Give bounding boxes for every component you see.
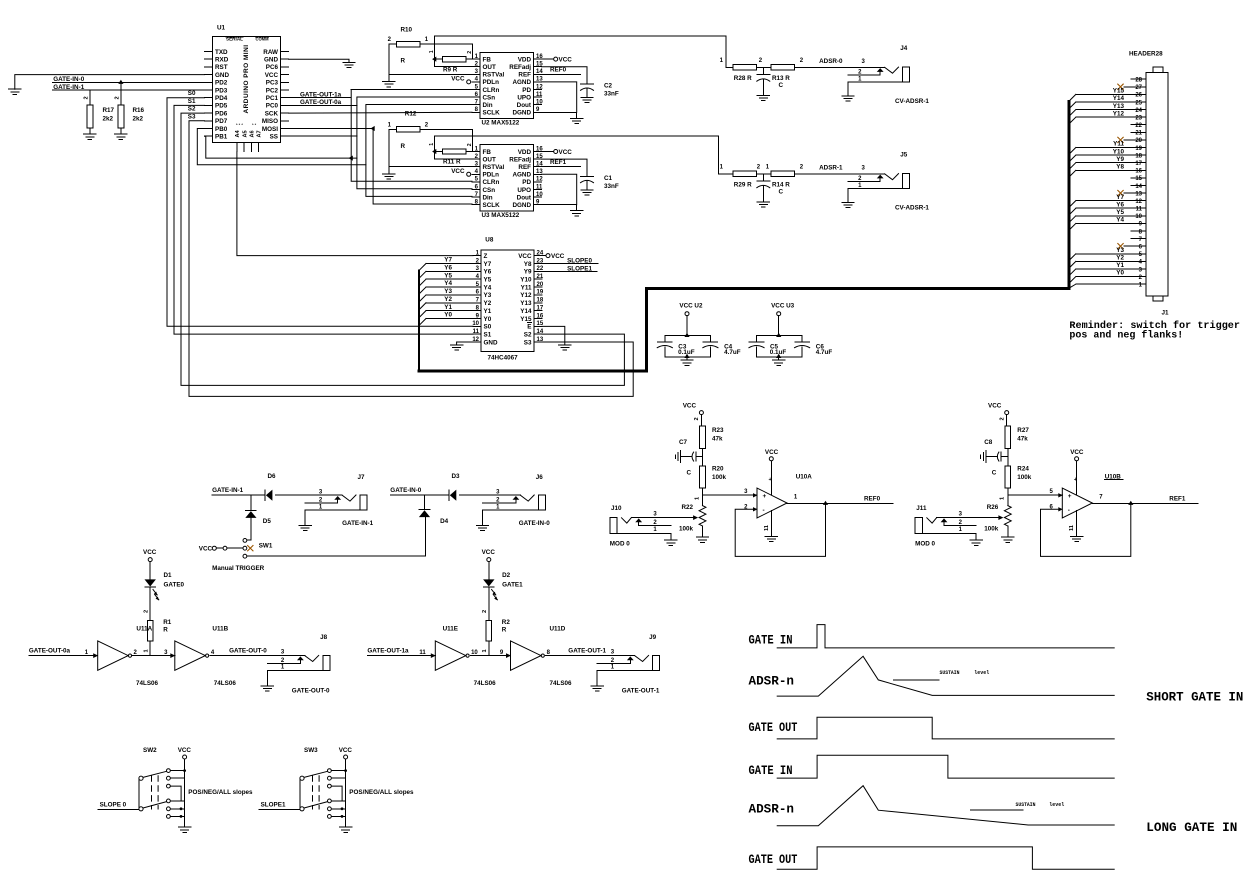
svg-text:R9 R: R9 R: [443, 66, 458, 73]
svg-text:Din: Din: [483, 194, 493, 201]
svg-text:ADSR-1: ADSR-1: [819, 165, 843, 172]
svg-text:100k: 100k: [984, 526, 999, 533]
svg-text:-: -: [1068, 507, 1070, 514]
svg-text:D4: D4: [440, 518, 449, 525]
svg-text:Manual TRIGGER: Manual TRIGGER: [212, 565, 265, 572]
svg-text:C1: C1: [604, 175, 613, 182]
svg-text:Y10: Y10: [520, 276, 532, 283]
svg-text:PD6: PD6: [215, 110, 228, 117]
svg-text:Y4: Y4: [484, 284, 492, 291]
svg-text:Y6: Y6: [1116, 201, 1124, 208]
svg-text:Y13: Y13: [520, 300, 532, 307]
svg-text:Y7: Y7: [444, 257, 452, 264]
svg-text:11: 11: [536, 92, 543, 98]
svg-text:VCC: VCC: [559, 56, 573, 63]
svg-text:R1: R1: [163, 619, 172, 626]
svg-text:R: R: [401, 143, 406, 150]
svg-text:GATE OUT: GATE OUT: [749, 852, 798, 867]
svg-text:DGND: DGND: [512, 110, 531, 117]
svg-text:J4: J4: [900, 45, 908, 52]
svg-text:SLOPE0: SLOPE0: [567, 258, 592, 265]
svg-text:GND: GND: [484, 339, 498, 346]
svg-text:PC0: PC0: [266, 103, 279, 110]
svg-text:11: 11: [419, 650, 426, 656]
svg-text:SLOPE1: SLOPE1: [261, 802, 286, 809]
svg-text:U2 MAX5122: U2 MAX5122: [482, 119, 520, 126]
svg-text:Dout: Dout: [517, 102, 532, 109]
svg-text:pos and neg flanks!: pos and neg flanks!: [1069, 330, 1183, 342]
svg-text:FB: FB: [483, 149, 492, 156]
svg-text:C8: C8: [984, 439, 993, 446]
svg-text:FB: FB: [483, 56, 492, 63]
svg-text:S0: S0: [484, 324, 492, 331]
svg-text:12: 12: [1135, 199, 1142, 205]
svg-text:PD2: PD2: [215, 80, 228, 87]
svg-text:Y9: Y9: [524, 269, 532, 276]
svg-text:PC1: PC1: [266, 95, 279, 102]
svg-text:VCC U3: VCC U3: [771, 303, 795, 310]
svg-text:R26: R26: [987, 504, 999, 511]
svg-text:Din: Din: [483, 102, 493, 109]
svg-text:ADSR-n: ADSR-n: [749, 802, 795, 817]
svg-text:S2: S2: [524, 332, 532, 339]
svg-text:4.7uF: 4.7uF: [816, 349, 833, 356]
svg-text:Y1: Y1: [484, 308, 492, 315]
svg-text:SW1: SW1: [259, 543, 273, 550]
svg-text:74LS06: 74LS06: [214, 680, 237, 687]
svg-text:Y3: Y3: [484, 292, 492, 299]
svg-text:MOD 0: MOD 0: [610, 541, 630, 548]
svg-text:SUSTAIN: SUSTAIN: [940, 670, 960, 676]
svg-text:16: 16: [1135, 169, 1142, 175]
svg-text:J5: J5: [900, 152, 908, 159]
svg-text:VCC U2: VCC U2: [679, 303, 703, 310]
svg-text:GATE-OUT-1a: GATE-OUT-1a: [300, 91, 342, 98]
svg-text:D3: D3: [452, 473, 461, 480]
svg-text:A5: A5: [242, 130, 248, 137]
svg-text:PC3: PC3: [266, 80, 279, 87]
svg-text:ARDUINO PRO MINI: ARDUINO PRO MINI: [243, 45, 250, 114]
svg-text:POS/NEG/ALL slopes: POS/NEG/ALL slopes: [188, 789, 253, 796]
svg-text:UPO: UPO: [517, 94, 531, 101]
svg-text:J9: J9: [649, 634, 657, 641]
svg-text:74HC4067: 74HC4067: [488, 355, 519, 362]
svg-text:PB0: PB0: [215, 126, 228, 133]
svg-text:S3: S3: [188, 113, 196, 120]
svg-text:R: R: [401, 58, 406, 65]
svg-text:RST: RST: [215, 64, 228, 71]
svg-text:18: 18: [537, 298, 544, 304]
svg-text:21: 21: [1135, 131, 1142, 137]
svg-text:0.1uF: 0.1uF: [770, 349, 787, 356]
svg-text:REF0: REF0: [864, 496, 881, 503]
svg-text:GATE-OUT-0: GATE-OUT-0: [292, 688, 330, 695]
svg-text:* *: * *: [252, 122, 257, 127]
svg-text:U11B: U11B: [212, 625, 228, 632]
svg-text:VDD: VDD: [518, 149, 532, 156]
svg-text:GATE0: GATE0: [164, 582, 185, 589]
svg-text:ADSR-n: ADSR-n: [749, 674, 795, 689]
svg-text:74LS06: 74LS06: [550, 680, 573, 687]
svg-text:24: 24: [1135, 108, 1142, 114]
svg-text:PD: PD: [522, 179, 531, 186]
svg-text:Y1: Y1: [444, 304, 452, 311]
svg-text:CLRn: CLRn: [483, 179, 500, 186]
svg-text:1: 1: [1000, 497, 1006, 500]
svg-text:ADSR-0: ADSR-0: [819, 58, 843, 65]
svg-text:SLOPE1: SLOPE1: [567, 266, 592, 273]
svg-text:VCC: VCC: [559, 149, 573, 156]
svg-text:Y0: Y0: [444, 312, 452, 319]
svg-text:VCC: VCC: [518, 253, 532, 260]
svg-text:11: 11: [473, 329, 480, 335]
svg-text:GND: GND: [215, 72, 229, 79]
svg-text:Z: Z: [484, 253, 488, 260]
svg-text:SCK: SCK: [265, 110, 279, 117]
svg-text:VCC: VCC: [339, 747, 353, 754]
svg-text:SS: SS: [270, 134, 278, 141]
svg-text:R20: R20: [712, 466, 724, 473]
svg-text:Y5: Y5: [1116, 209, 1124, 216]
svg-text:GATE-OUT-1: GATE-OUT-1: [568, 648, 606, 655]
svg-text:R22: R22: [681, 504, 693, 511]
svg-text:GATE OUT: GATE OUT: [749, 720, 798, 735]
svg-text:Y11: Y11: [521, 284, 532, 291]
svg-text:10: 10: [472, 321, 479, 327]
svg-text:GATE-IN-0: GATE-IN-0: [390, 487, 422, 494]
svg-text:Y9: Y9: [1116, 156, 1124, 163]
svg-text:VCC: VCC: [1070, 449, 1084, 456]
svg-text:2: 2: [143, 610, 149, 613]
svg-text:Y3: Y3: [444, 288, 452, 295]
svg-text:+: +: [1068, 493, 1072, 500]
svg-text:Y14: Y14: [1113, 95, 1125, 102]
svg-text:20: 20: [537, 282, 544, 288]
svg-text:Y3: Y3: [1116, 247, 1124, 254]
svg-text:level: level: [974, 670, 989, 676]
svg-text:GATE-OUT-0a: GATE-OUT-0a: [29, 648, 71, 655]
svg-text:C: C: [779, 82, 784, 89]
svg-text:J7: J7: [358, 474, 366, 481]
svg-text:J11: J11: [916, 505, 927, 512]
svg-text:S2: S2: [188, 106, 196, 113]
svg-text:C2: C2: [604, 83, 613, 90]
svg-text:33nF: 33nF: [604, 91, 619, 98]
svg-text:OUT: OUT: [483, 156, 496, 163]
svg-text:D2: D2: [502, 572, 511, 579]
svg-text:27: 27: [1135, 85, 1142, 91]
svg-text:* * *: * * *: [236, 122, 243, 127]
svg-text:47k: 47k: [712, 436, 723, 443]
svg-text:SW3: SW3: [304, 747, 318, 754]
svg-text:U1: U1: [217, 25, 226, 32]
svg-text:AGND: AGND: [512, 79, 531, 86]
svg-text:VDD: VDD: [518, 56, 532, 63]
svg-text:R17: R17: [103, 107, 115, 114]
svg-text:1: 1: [429, 143, 435, 146]
svg-text:REF: REF: [518, 164, 531, 171]
svg-text:1: 1: [429, 50, 435, 53]
svg-text:1: 1: [694, 497, 700, 500]
svg-text:VCC: VCC: [265, 72, 279, 79]
svg-text:R23: R23: [712, 427, 724, 434]
svg-text:1: 1: [143, 649, 149, 652]
svg-text:16: 16: [537, 313, 544, 319]
svg-text:C: C: [686, 470, 691, 477]
svg-text:2: 2: [999, 417, 1005, 420]
svg-text:VCC: VCC: [551, 253, 565, 260]
svg-text:17: 17: [1135, 161, 1142, 167]
svg-text:GATE-IN-0: GATE-IN-0: [519, 520, 551, 527]
svg-text:Y2: Y2: [1116, 255, 1124, 262]
svg-text:U8: U8: [485, 237, 494, 244]
svg-text:D6: D6: [268, 473, 277, 480]
svg-text:R: R: [163, 626, 168, 633]
svg-text:C: C: [992, 470, 997, 477]
svg-text:VCC: VCC: [143, 549, 157, 556]
svg-text:15: 15: [1135, 176, 1142, 182]
svg-text:2: 2: [83, 96, 89, 99]
svg-text:S0: S0: [188, 90, 196, 97]
svg-text:R10: R10: [401, 27, 413, 34]
svg-text:100k: 100k: [1017, 474, 1032, 481]
svg-text:U3 MAX5122: U3 MAX5122: [482, 212, 520, 219]
svg-text:S1: S1: [484, 332, 492, 339]
svg-text:-: -: [763, 507, 765, 514]
svg-text:VCC: VCC: [451, 76, 465, 83]
svg-text:PB1: PB1: [215, 134, 228, 141]
svg-text:J6: J6: [536, 474, 544, 481]
svg-text:SLOPE 0: SLOPE 0: [100, 802, 127, 809]
svg-text:REFadj: REFadj: [509, 156, 531, 163]
svg-text:R24: R24: [1017, 466, 1029, 473]
svg-text:A4: A4: [235, 129, 241, 137]
svg-text:GATE-IN-1: GATE-IN-1: [342, 520, 374, 527]
svg-text:Y8: Y8: [524, 261, 532, 268]
svg-text:100k: 100k: [679, 526, 694, 533]
svg-text:REF1: REF1: [1169, 496, 1186, 503]
svg-text:REF1: REF1: [550, 159, 567, 166]
svg-text:R11 R: R11 R: [443, 159, 461, 166]
svg-text:PC2: PC2: [266, 87, 279, 94]
svg-text:D1: D1: [164, 572, 173, 579]
svg-text:GATE-OUT-1a: GATE-OUT-1a: [367, 648, 409, 655]
svg-text:13: 13: [537, 337, 544, 343]
svg-text:GATE1: GATE1: [502, 582, 523, 589]
svg-text:CSn: CSn: [483, 187, 496, 194]
svg-text:Y0: Y0: [484, 316, 492, 323]
svg-text:47k: 47k: [1017, 436, 1028, 443]
svg-text:PDLn: PDLn: [483, 79, 500, 86]
svg-text:MOSI: MOSI: [262, 126, 278, 133]
svg-text:GATE IN: GATE IN: [749, 633, 793, 648]
svg-text:HEADER28: HEADER28: [1129, 51, 1163, 58]
svg-text:11: 11: [764, 525, 770, 531]
svg-text:AGND: AGND: [512, 172, 531, 179]
svg-text:Y6: Y6: [484, 269, 492, 276]
svg-text:LONG GATE IN: LONG GATE IN: [1146, 820, 1237, 835]
svg-text:19: 19: [1135, 146, 1142, 152]
svg-text:Y12: Y12: [1113, 110, 1125, 117]
svg-text:2: 2: [482, 610, 488, 613]
svg-text:19: 19: [537, 290, 544, 296]
svg-text:11: 11: [1136, 207, 1143, 213]
svg-text:U11D: U11D: [550, 625, 566, 632]
svg-text:RSTVal: RSTVal: [483, 72, 505, 79]
svg-text:25: 25: [1135, 100, 1142, 106]
svg-text:Y12: Y12: [520, 292, 532, 299]
svg-text:10: 10: [536, 100, 543, 106]
svg-text:R2: R2: [502, 619, 511, 626]
svg-text:POS/NEG/ALL slopes: POS/NEG/ALL slopes: [349, 789, 414, 796]
svg-text:MOD 0: MOD 0: [915, 541, 935, 548]
svg-text:CV-ADSR-1: CV-ADSR-1: [895, 204, 929, 211]
svg-text:PD7: PD7: [215, 118, 228, 125]
svg-text:VCC: VCC: [765, 449, 779, 456]
svg-text:Y13: Y13: [1113, 103, 1125, 110]
svg-text:VCC: VCC: [199, 546, 213, 553]
svg-text:33nF: 33nF: [604, 183, 619, 190]
svg-text:R12: R12: [405, 110, 417, 117]
svg-text:R: R: [502, 626, 507, 633]
svg-text:VCC: VCC: [482, 549, 496, 556]
svg-text:J10: J10: [611, 505, 622, 512]
svg-text:GATE-OUT-1: GATE-OUT-1: [622, 688, 660, 695]
svg-text:CLRn: CLRn: [483, 87, 500, 94]
svg-text:23: 23: [1135, 115, 1142, 121]
svg-text:DGND: DGND: [512, 202, 531, 209]
svg-text:22: 22: [1135, 123, 1142, 129]
svg-text:Y5: Y5: [484, 276, 492, 283]
svg-text:CV-ADSR-1: CV-ADSR-1: [895, 98, 929, 105]
svg-text:11: 11: [1069, 525, 1075, 531]
svg-text:VCC: VCC: [988, 403, 1002, 410]
svg-text:Y15: Y15: [1113, 88, 1125, 95]
svg-text:S1: S1: [188, 98, 196, 105]
svg-text:18: 18: [1135, 153, 1142, 159]
svg-text:Y2: Y2: [444, 296, 452, 303]
svg-text:GATE-IN-0: GATE-IN-0: [53, 76, 85, 83]
svg-text:REF: REF: [518, 72, 531, 79]
svg-text:17: 17: [537, 305, 544, 311]
svg-text:U11A: U11A: [136, 625, 152, 632]
svg-text:TXD: TXD: [215, 49, 228, 56]
svg-text:Y1: Y1: [1116, 262, 1124, 269]
svg-text:12: 12: [536, 84, 543, 90]
svg-text:Y8: Y8: [1116, 163, 1124, 170]
svg-text:Y4: Y4: [1116, 217, 1124, 224]
svg-text:U10A: U10A: [796, 473, 813, 480]
svg-text:R16: R16: [133, 107, 145, 114]
svg-text:UPO: UPO: [517, 187, 531, 194]
svg-text:Y4: Y4: [444, 280, 452, 287]
svg-text:74LS06: 74LS06: [136, 680, 159, 687]
svg-text:REF0: REF0: [550, 67, 567, 74]
svg-text:0.1uF: 0.1uF: [678, 349, 695, 356]
svg-text:RSTVal: RSTVal: [483, 164, 505, 171]
svg-text:E: E: [527, 324, 531, 331]
svg-text:Y2: Y2: [484, 300, 492, 307]
svg-text:2k2: 2k2: [133, 116, 144, 123]
svg-text:R28 R: R28 R: [734, 75, 752, 82]
svg-text:Y6: Y6: [444, 265, 452, 272]
svg-text:J1: J1: [1162, 310, 1170, 317]
svg-text:12: 12: [536, 177, 543, 183]
svg-text:10: 10: [1135, 214, 1142, 220]
svg-text:D5: D5: [263, 518, 272, 525]
svg-text:REFadj: REFadj: [509, 64, 531, 71]
svg-text:C: C: [779, 188, 784, 195]
svg-text:RXD: RXD: [215, 57, 229, 64]
svg-text:28: 28: [1135, 78, 1142, 84]
svg-text:2: 2: [114, 96, 120, 99]
svg-text:PD4: PD4: [215, 95, 228, 102]
svg-text:Y11: Y11: [1113, 141, 1124, 148]
svg-text:1: 1: [482, 649, 488, 652]
svg-text:26: 26: [1135, 93, 1142, 99]
svg-text:100k: 100k: [712, 474, 727, 481]
svg-text:SUSTAIN: SUSTAIN: [1016, 802, 1036, 808]
svg-text:R27: R27: [1017, 427, 1029, 434]
svg-text:11: 11: [536, 184, 543, 190]
svg-text:SCLK: SCLK: [483, 110, 501, 117]
svg-text:R29 R: R29 R: [734, 182, 752, 189]
svg-text:PD3: PD3: [215, 87, 228, 94]
svg-text:+: +: [763, 493, 767, 500]
svg-text:GATE-OUT-0a: GATE-OUT-0a: [300, 99, 342, 106]
svg-text:GATE IN: GATE IN: [749, 763, 793, 778]
svg-text:C7: C7: [679, 439, 688, 446]
svg-text:S3: S3: [524, 339, 532, 346]
svg-text:Y14: Y14: [520, 308, 532, 315]
svg-text:VCC: VCC: [683, 403, 697, 410]
svg-text:74LS06: 74LS06: [474, 680, 497, 687]
svg-text:level: level: [1049, 802, 1064, 808]
svg-text:20: 20: [1135, 138, 1142, 144]
svg-text:Y7: Y7: [1116, 194, 1124, 201]
svg-text:SW2: SW2: [143, 747, 157, 754]
svg-text:Y7: Y7: [484, 261, 492, 268]
svg-text:2: 2: [467, 51, 473, 54]
svg-text:PDLn: PDLn: [483, 172, 500, 179]
svg-text:OUT: OUT: [483, 64, 496, 71]
svg-text:Y10: Y10: [1113, 148, 1125, 155]
svg-text:Y5: Y5: [444, 272, 452, 279]
svg-text:2k2: 2k2: [103, 116, 114, 123]
svg-text:SCLK: SCLK: [483, 202, 501, 209]
svg-text:14: 14: [1135, 184, 1142, 190]
svg-text:J8: J8: [320, 634, 328, 641]
svg-text:VCC: VCC: [451, 168, 465, 175]
svg-text:GATE-IN-1: GATE-IN-1: [212, 487, 244, 494]
svg-text:2: 2: [467, 143, 473, 146]
svg-text:PD5: PD5: [215, 103, 228, 110]
svg-text:GATE-IN-1: GATE-IN-1: [53, 84, 85, 91]
svg-text:A6: A6: [250, 130, 256, 137]
svg-text:SHORT GATE IN: SHORT GATE IN: [1146, 689, 1243, 704]
svg-text:PD: PD: [522, 87, 531, 94]
svg-text:4.7uF: 4.7uF: [724, 349, 741, 356]
svg-text:VCC: VCC: [178, 747, 192, 754]
svg-text:2: 2: [694, 417, 700, 420]
svg-text:GATE-OUT-0: GATE-OUT-0: [229, 648, 267, 655]
svg-text:Y15: Y15: [520, 316, 532, 323]
svg-text:10: 10: [536, 192, 543, 198]
svg-text:21: 21: [537, 274, 544, 280]
svg-text:GND: GND: [264, 57, 278, 64]
svg-text:A7: A7: [257, 130, 263, 137]
svg-text:PC6: PC6: [266, 64, 279, 71]
